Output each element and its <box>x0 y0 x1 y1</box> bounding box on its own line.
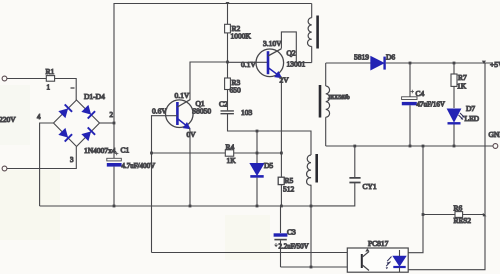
wire Q1 emitter down <box>189 128 192 207</box>
node C4 gnd <box>409 145 412 148</box>
transformer T1 primary <box>308 4 318 63</box>
node rail3 feedback <box>310 266 313 269</box>
label D1-D4 <box>84 92 105 101</box>
resistor R6 <box>454 204 472 226</box>
resistor R2 <box>225 4 252 41</box>
resistor R3 <box>225 78 241 95</box>
wire +5 branch down <box>408 63 485 270</box>
svg-text:S8050: S8050 <box>192 107 211 116</box>
transistor Q1 <box>166 91 212 139</box>
svg-text:D6: D6 <box>386 53 395 62</box>
svg-text:2.2uF/50V: 2.2uF/50V <box>279 243 309 251</box>
node LED gnd <box>453 145 456 148</box>
svg-text:0.6V: 0.6V <box>152 107 167 116</box>
wire R5 to rail <box>280 185 282 206</box>
svg-text:D1-D4: D1-D4 <box>84 92 105 101</box>
wire node to Q2 base <box>228 61 269 63</box>
wire output top <box>326 62 371 64</box>
wire node to Q1 collector <box>190 62 228 100</box>
label 0.6V <box>152 107 167 116</box>
resistor R7 <box>451 63 467 108</box>
wire D6 to +5 <box>386 62 493 64</box>
resistor R5 <box>278 176 294 194</box>
wire rail3 C3 to pc817 <box>281 266 348 268</box>
LED D7 <box>448 104 480 146</box>
svg-text:R6: R6 <box>454 204 463 213</box>
terminal input N <box>2 166 7 171</box>
svg-text:47uF/16V: 47uF/16V <box>417 101 445 109</box>
node feedback rail1 <box>310 205 313 208</box>
wire Q2 emitter down <box>280 77 282 178</box>
transformer T1 secondary <box>320 63 350 146</box>
svg-text:512: 512 <box>283 185 295 194</box>
wire bridge right to C1 node <box>100 122 115 124</box>
terminal GND <box>493 144 498 149</box>
wire input N to bridge bottom <box>7 147 76 169</box>
node R4 D5 <box>256 152 259 155</box>
svg-text:D5: D5 <box>264 161 273 170</box>
svg-text:1: 1 <box>47 84 51 92</box>
svg-text:4.7uF/400V: 4.7uF/400V <box>122 162 156 170</box>
wire bridge left down to rail <box>40 123 54 206</box>
svg-text:R4: R4 <box>226 143 235 152</box>
node +5 junction <box>482 61 486 64</box>
wire R3 to C2 <box>227 90 229 111</box>
wire top rail <box>114 4 312 124</box>
svg-text:0.1V: 0.1V <box>175 91 190 100</box>
terminal input L <box>2 76 7 81</box>
capacitor C4 <box>402 63 445 146</box>
node R5 rail <box>280 205 283 208</box>
svg-text:RES2: RES2 <box>454 216 472 225</box>
wire gnd to pc817 <box>408 146 423 253</box>
svg-text:GND: GND <box>489 130 500 139</box>
wire input L to R1 <box>7 78 46 80</box>
label 0.1V Q2 <box>241 60 256 69</box>
svg-text:3.10V: 3.10V <box>263 39 282 48</box>
svg-text:PC817: PC817 <box>368 239 389 248</box>
svg-text:C1: C1 <box>121 146 130 155</box>
capacitor CY1 <box>311 146 377 206</box>
svg-text:D7: D7 <box>466 104 475 113</box>
bridge pin 2 <box>110 111 114 119</box>
capacitor C1 <box>107 123 155 206</box>
label 2V <box>280 76 290 85</box>
bridge pin 4 <box>37 113 41 121</box>
resistor R4 <box>225 143 236 166</box>
wire link D5 <box>256 131 258 153</box>
svg-text:CY1: CY1 <box>363 182 377 191</box>
resistor R1 <box>46 67 55 91</box>
bridge pin 3 <box>70 156 74 164</box>
node C2 D5 link <box>256 130 259 133</box>
node R2 R3 <box>226 61 229 64</box>
node R6 right <box>483 213 487 217</box>
node D5 rail <box>256 205 259 208</box>
svg-text:1000K: 1000K <box>231 32 252 41</box>
svg-text:1K: 1K <box>227 156 237 165</box>
node R7 top <box>453 62 456 65</box>
diode D5 <box>250 153 273 206</box>
svg-text:103: 103 <box>241 108 253 117</box>
diode D6 <box>354 53 395 70</box>
svg-text:C3: C3 <box>287 228 296 237</box>
wire Q2 collector jog to primary <box>281 32 311 63</box>
node C1 rail <box>113 205 116 208</box>
optocoupler PC817 <box>347 239 408 272</box>
wire Q1 base left down <box>152 116 178 253</box>
label +5V <box>490 60 500 69</box>
label 1N4007x4 <box>84 146 116 155</box>
bridge rectifier D1-D4 <box>54 100 100 147</box>
capacitor C2 <box>219 100 253 118</box>
node base R4 <box>150 152 153 155</box>
svg-text:+5V: +5V <box>490 60 500 69</box>
node R4 Q2e <box>280 152 283 155</box>
wire bottom rail1 <box>40 205 355 207</box>
svg-text:1N4007x4: 1N4007x4 <box>84 146 116 155</box>
transistor Q2 <box>256 39 306 78</box>
svg-text:C4: C4 <box>416 89 425 98</box>
node C4 top <box>409 62 412 65</box>
svg-text:0V: 0V <box>187 130 197 139</box>
wire rail2 to pc817 <box>152 252 348 254</box>
node R6 left <box>422 213 425 216</box>
svg-text:Q2: Q2 <box>287 49 296 58</box>
svg-text:0.1V: 0.1V <box>241 60 256 69</box>
node bridge plus <box>113 122 116 125</box>
label GND <box>489 130 500 139</box>
minus mark <box>71 87 75 89</box>
transformer T1 feedback winding <box>307 154 317 267</box>
node top rail R2 <box>226 2 230 5</box>
wire R6 row <box>423 214 485 216</box>
wire R4 row <box>152 152 282 154</box>
svg-text:2: 2 <box>110 111 114 119</box>
node R62 gnd <box>422 145 425 148</box>
node Q1 emitter rail <box>189 205 192 208</box>
wire R1 to bridge top <box>55 79 77 101</box>
svg-text:650: 650 <box>230 86 242 95</box>
svg-text:4: 4 <box>37 113 41 121</box>
svg-text:220V: 220V <box>0 115 16 124</box>
svg-text:R1: R1 <box>46 67 55 76</box>
svg-text:LED: LED <box>465 114 480 123</box>
svg-text:3: 3 <box>70 156 74 164</box>
wire GND rail <box>326 145 493 147</box>
capacitor C3 <box>274 206 309 267</box>
wire R2 to node <box>227 33 229 78</box>
label 220V <box>0 115 16 124</box>
wire C2 bottom to feedback winding <box>228 114 312 155</box>
svg-text:C2: C2 <box>219 100 228 109</box>
svg-text:5819: 5819 <box>354 53 369 62</box>
svg-text:JEX5#Jb: JEX5#Jb <box>328 95 350 101</box>
svg-text:1K: 1K <box>457 82 467 91</box>
node CY1 top <box>353 145 356 148</box>
